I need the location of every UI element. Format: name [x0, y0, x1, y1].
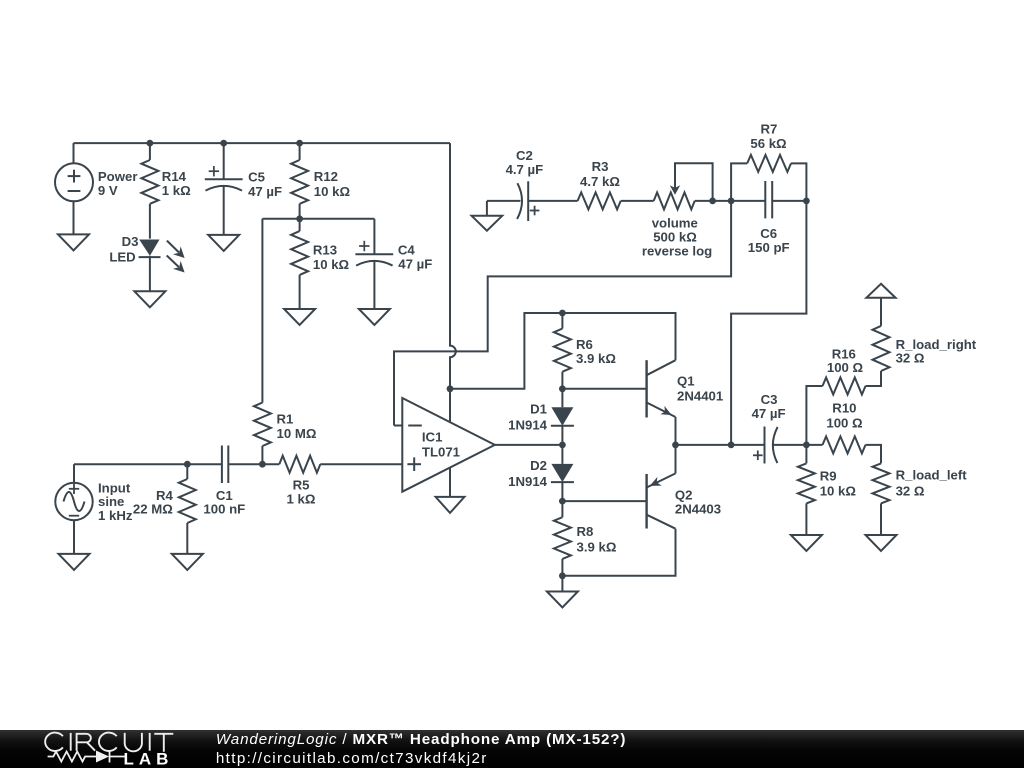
svg-text:1 kΩ: 1 kΩ: [162, 183, 191, 198]
svg-text:1 kΩ: 1 kΩ: [287, 492, 316, 507]
voltage source Power V1: [55, 143, 93, 234]
wire C5 top: [223, 143, 225, 179]
resistor R7: [747, 155, 791, 172]
capacitor C6: [765, 181, 772, 218]
label R_load_right 32 Ω: [896, 337, 977, 366]
label R12 10 kΩ: [314, 169, 351, 199]
wire mid rail down to R1: [261, 219, 263, 403]
svg-text:D1: D1: [530, 402, 547, 417]
svg-text:2N4403: 2N4403: [675, 502, 721, 517]
wire feedback from -in: [394, 201, 731, 426]
label Q2 2N4403: [675, 488, 721, 517]
svg-text:D2: D2: [530, 458, 547, 473]
svg-text:150 pF: 150 pF: [748, 240, 790, 255]
svg-text:R7: R7: [760, 121, 777, 136]
label volume 500 kΩ reverse log: [642, 215, 712, 258]
label R7 56 kΩ: [750, 121, 787, 151]
svg-text:1N914: 1N914: [508, 474, 548, 489]
wire input source top: [73, 464, 75, 483]
wire op-amp output to diode midpoint: [495, 444, 563, 446]
label R8 3.9 kΩ: [577, 524, 617, 554]
wire C2 ground stub: [486, 201, 488, 216]
node R6 bottom junction: [559, 385, 566, 392]
node R6 top junction: [559, 310, 566, 317]
svg-text:R5: R5: [293, 478, 310, 493]
label R13 10 kΩ: [313, 243, 350, 273]
resistor R13: [291, 219, 308, 309]
svg-text:C2: C2: [516, 148, 533, 163]
svg-text:R10: R10: [832, 401, 856, 416]
wire R12 bottom to mid rail: [299, 204, 301, 219]
ground (D3): [134, 291, 165, 307]
svg-text:reverse log: reverse log: [642, 244, 712, 259]
node output feedback tap: [728, 442, 735, 449]
label R3 4.7 kΩ: [580, 159, 620, 189]
svg-text:R4: R4: [156, 488, 174, 503]
svg-text:C1: C1: [216, 488, 233, 503]
svg-text:R6: R6: [576, 337, 593, 352]
svg-text:R3: R3: [592, 159, 609, 174]
wire mid rail: [262, 218, 374, 220]
CircuitLab logo CIRCUIT: [45, 733, 173, 752]
diode D2 (1N914): [551, 445, 574, 501]
node R4 top junction: [184, 461, 191, 468]
label C4 47 µF: [398, 243, 432, 272]
svg-text:100 nF: 100 nF: [203, 502, 245, 517]
resistor R12: [291, 160, 308, 204]
svg-text:R14: R14: [162, 169, 187, 184]
svg-text:47 µF: 47 µF: [398, 256, 432, 271]
wire Q2 base wire: [562, 500, 646, 502]
potentiometer volume (500 kΩ reverse log): [654, 163, 713, 209]
wire supply distribution to R6/Q1: [450, 313, 676, 389]
node op-amp output / diode midpoint junction: [559, 442, 566, 449]
capacitor C2 (polarized): [517, 181, 539, 221]
svg-text:10 kΩ: 10 kΩ: [820, 483, 857, 498]
ground (R8): [547, 592, 578, 608]
svg-text:TL071: TL071: [422, 444, 460, 459]
label R14 1 kΩ: [162, 169, 191, 198]
svg-text:R1: R1: [277, 412, 294, 427]
ground (R9): [791, 535, 822, 551]
wire op-amp -in stub: [394, 425, 402, 427]
wire R16 left leg: [806, 386, 822, 445]
label R1 10 MΩ: [277, 412, 317, 441]
wire C6 to right node: [772, 200, 806, 202]
wire R7 right leg: [791, 163, 806, 201]
svg-text:3.9 kΩ: 3.9 kΩ: [576, 351, 616, 366]
label R6 3.9 kΩ: [576, 337, 616, 366]
ground (C4): [359, 309, 390, 325]
node supply/op-amp V+ junction: [447, 385, 454, 392]
node R14 top rail junction: [147, 140, 154, 147]
transistor Q2 (2N4403 PNP): [647, 445, 676, 529]
wire pot to node: [695, 200, 766, 202]
svg-text:C6: C6: [760, 226, 777, 241]
svg-text:LAB: LAB: [124, 750, 174, 768]
resistor R5: [279, 456, 320, 473]
bottom bar background: [0, 730, 1024, 768]
label R10 100 Ω: [826, 401, 863, 431]
node R12/R13 junction: [296, 215, 303, 222]
wire input source bottom: [73, 520, 75, 554]
resistor R14: [141, 160, 158, 204]
wire C2 ground to plate: [487, 200, 521, 202]
label R16 100 Ω: [827, 347, 864, 376]
bar title line: [216, 731, 626, 748]
ground (C2): [472, 216, 503, 231]
svg-text:22 MΩ: 22 MΩ: [133, 502, 173, 517]
svg-text:IC1: IC1: [422, 430, 443, 445]
node R7/C6 right junction: [803, 198, 810, 205]
label Input sine 1 kHz: [98, 480, 133, 522]
svg-text:http://circuitlab.com/ct73vkdf: http://circuitlab.com/ct73vkdf4kj2r: [216, 750, 488, 767]
op-amp IC1 TL071: [402, 389, 495, 497]
wire emitters node to C3: [676, 444, 765, 446]
ground (input source): [59, 554, 90, 570]
label R4 22 MΩ: [133, 488, 174, 517]
svg-text:Input: Input: [98, 480, 131, 495]
svg-text:1N914: 1N914: [508, 418, 548, 433]
ground (R13): [284, 309, 315, 325]
label C2 4.7 µF: [506, 148, 544, 177]
CircuitLab logo resistor-diode squiggle: [48, 751, 125, 763]
resistor R9: [798, 445, 815, 535]
svg-text:R9: R9: [820, 468, 837, 483]
wire R14 to D3: [149, 204, 151, 239]
svg-text:R12: R12: [314, 169, 338, 184]
ground (R4): [172, 554, 203, 570]
node emitters junction: [672, 442, 679, 449]
label C1 100 nF: [203, 488, 245, 517]
capacitor C5 (polarized): [205, 166, 243, 235]
wire R14 top: [149, 143, 151, 160]
label R5 1 kΩ: [287, 478, 316, 507]
resistor R3: [578, 192, 621, 209]
resistor R16: [823, 378, 866, 395]
capacitor C3 (polarized): [753, 427, 778, 464]
node pot wiper junction: [709, 198, 716, 205]
svg-text:32 Ω: 32 Ω: [896, 483, 925, 498]
wire R_load_left bottom: [880, 503, 882, 535]
label R_load_left 32 Ω: [896, 468, 968, 499]
transistor Q1 (2N4401 NPN): [647, 360, 676, 445]
node C5 top rail junction: [220, 140, 227, 147]
wire right node down to output: [731, 201, 806, 445]
node C3/R9/R16/R10 junction: [803, 442, 810, 449]
label C5 47 µF: [248, 169, 282, 199]
wire R8 ground stub: [561, 576, 563, 592]
node feedback tap junction: [728, 198, 735, 205]
svg-text:C3: C3: [761, 392, 778, 407]
resistor R8: [554, 501, 571, 576]
svg-text:56 kΩ: 56 kΩ: [750, 136, 787, 151]
wire top supply rail: [74, 142, 451, 144]
ground (C5): [208, 235, 239, 251]
ground (R_load_left): [866, 535, 897, 551]
wire Q1 base wire: [562, 388, 646, 390]
wire R16 to R_load_right: [866, 371, 882, 386]
svg-text:4.7 kΩ: 4.7 kΩ: [580, 174, 620, 189]
svg-text:2N4401: 2N4401: [677, 389, 723, 404]
svg-text:47 µF: 47 µF: [248, 184, 282, 199]
svg-text:volume: volume: [652, 215, 698, 230]
label D3 LED: [109, 234, 138, 264]
svg-text:D3: D3: [122, 234, 139, 249]
wire R12 top: [299, 143, 301, 160]
resistor R4: [179, 464, 196, 554]
label Power 9 V: [98, 169, 138, 198]
svg-text:100 Ω: 100 Ω: [826, 415, 863, 430]
node R1/R5 junction: [259, 461, 266, 468]
voltage source Input (sine): [55, 483, 92, 520]
svg-text:R13: R13: [313, 243, 337, 258]
label C3 47 µF: [752, 392, 786, 421]
svg-text:100 Ω: 100 Ω: [827, 360, 864, 375]
svg-text:3.9 kΩ: 3.9 kΩ: [577, 539, 617, 554]
ground (op-amp V-): [436, 497, 465, 513]
ground (power source): [58, 234, 89, 250]
svg-text:Power: Power: [98, 169, 138, 184]
resistor R10: [823, 436, 866, 453]
svg-text:10 MΩ: 10 MΩ: [277, 426, 317, 441]
svg-text:32 Ω: 32 Ω: [896, 351, 925, 366]
wire input row: [74, 463, 222, 465]
svg-text:Q1: Q1: [677, 374, 695, 389]
svg-text:C5: C5: [248, 169, 265, 184]
svg-text:Q2: Q2: [675, 488, 693, 503]
node D2/R8 junction: [559, 498, 566, 505]
label D1 1N914: [508, 402, 548, 433]
svg-text:R_load_left: R_load_left: [896, 468, 968, 483]
power arrow (R_load_right net): [866, 284, 895, 298]
wire R_load_right top: [880, 298, 882, 326]
svg-text:R8: R8: [577, 524, 594, 539]
capacitor C4 (polarized): [355, 219, 393, 309]
wire supply rail drop to op-amp V+ (with hop over feedback wire): [450, 143, 456, 389]
wire R10 to R_load_left: [866, 445, 882, 464]
wire R7 left leg: [731, 163, 747, 201]
wire R3 to volume pot: [621, 200, 654, 202]
wire C1 to R5 node: [228, 463, 279, 465]
label IC1 TL071: [422, 430, 460, 460]
svg-text:9 V: 9 V: [98, 183, 118, 198]
svg-text:1 kHz: 1 kHz: [98, 508, 133, 523]
wire C3 to right node: [773, 444, 822, 446]
node R8 bottom junction: [559, 572, 566, 579]
svg-text:LED: LED: [109, 250, 135, 265]
label Q1 2N4401: [677, 374, 723, 404]
svg-text:47 µF: 47 µF: [752, 406, 786, 421]
svg-text:500 kΩ: 500 kΩ: [653, 230, 697, 245]
diode D1 (1N914): [551, 389, 574, 445]
wire R8 bottom to Q2 collector: [562, 529, 675, 576]
wire R5 to op-amp +in: [320, 463, 402, 465]
label C6 150 pF: [748, 226, 790, 255]
svg-text:4.7 µF: 4.7 µF: [506, 162, 544, 177]
resistor R6: [554, 313, 571, 389]
node R12 top rail junction: [296, 140, 303, 147]
capacitor C1: [222, 446, 228, 484]
svg-text:10 kΩ: 10 kΩ: [313, 257, 350, 272]
resistor R_load_left: [873, 463, 890, 503]
label D2 1N914: [508, 458, 548, 489]
wire C2 to R3: [528, 200, 577, 202]
resistor R_load_right: [873, 326, 890, 371]
LED D3: [139, 240, 185, 292]
resistor R1: [254, 403, 271, 465]
bar url line: [216, 750, 488, 767]
svg-text:WanderingLogic / MXR™ Headphon: WanderingLogic / MXR™ Headphone Amp (MX-…: [216, 731, 626, 748]
svg-text:C4: C4: [398, 243, 416, 258]
label R9 10 kΩ: [820, 468, 857, 498]
CircuitLab logo LAB: [124, 750, 174, 768]
svg-text:10 kΩ: 10 kΩ: [314, 184, 351, 199]
